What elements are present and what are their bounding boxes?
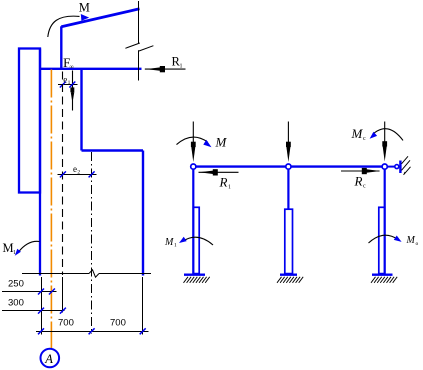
column step vertical bbox=[80, 69, 82, 151]
right support hatching bbox=[371, 277, 397, 283]
dim e1 line bbox=[58, 84, 78, 86]
svg-text:2: 2 bbox=[77, 169, 80, 175]
svg-text:e: e bbox=[73, 164, 77, 174]
left column line bbox=[192, 167, 194, 274]
middle column widened part bbox=[285, 209, 293, 273]
svg-text:∞: ∞ bbox=[70, 65, 74, 71]
beam axis dashed line bbox=[62, 72, 64, 276]
roof beam sloped top chord bbox=[61, 9, 139, 27]
svg-text:M: M bbox=[215, 135, 228, 150]
svg-text:M: M bbox=[351, 126, 364, 141]
extension line left bbox=[41, 277, 43, 335]
R arrow left bbox=[199, 171, 239, 173]
dim e2 ticks bbox=[60, 171, 66, 177]
section break line (vertical) bbox=[125, 1, 153, 81]
beam soffit line bbox=[39, 68, 142, 70]
R arrow right bbox=[341, 170, 380, 172]
force arrow node 2 bbox=[287, 122, 289, 149]
left support hatching bbox=[184, 277, 210, 283]
R1 arrow bbox=[145, 68, 186, 70]
column moment arc left bbox=[183, 237, 214, 245]
svg-text:700: 700 bbox=[110, 318, 126, 329]
svg-text:R: R bbox=[219, 175, 228, 190]
wall support hatching bbox=[402, 156, 411, 175]
column left edge bbox=[39, 49, 41, 276]
left support bar bbox=[184, 274, 205, 276]
svg-text:1: 1 bbox=[68, 80, 71, 86]
moment M arrowhead bbox=[81, 14, 89, 21]
wall support link bbox=[388, 166, 396, 168]
extension line dashed-axis bbox=[62, 277, 64, 313]
base line break squiggle bbox=[89, 270, 99, 277]
svg-text:1: 1 bbox=[228, 185, 231, 191]
moment arc node 3 bbox=[373, 129, 403, 141]
wall support pin circle bbox=[395, 165, 399, 169]
dim e1 ticks bbox=[60, 82, 66, 88]
svg-text:R: R bbox=[354, 174, 363, 189]
roof beam end face bbox=[60, 26, 62, 69]
dim 700 700 bbox=[36, 331, 149, 333]
svg-text:250: 250 bbox=[8, 278, 24, 289]
moment M arc (top) bbox=[48, 16, 80, 37]
middle support bar bbox=[280, 274, 297, 276]
dim 300 bbox=[2, 310, 65, 312]
svg-text:A: A bbox=[44, 352, 53, 366]
svg-text:700: 700 bbox=[58, 318, 74, 329]
svg-text:c: c bbox=[363, 136, 366, 142]
svg-text:M: M bbox=[164, 237, 174, 248]
right support bar bbox=[372, 274, 393, 276]
node 3 circle bbox=[382, 164, 387, 169]
svg-text:1: 1 bbox=[174, 243, 177, 249]
moment arc node 1 bbox=[177, 137, 208, 145]
dim 250 bbox=[2, 291, 57, 293]
svg-text:1: 1 bbox=[180, 64, 183, 70]
svg-text:c: c bbox=[363, 184, 366, 190]
right column line bbox=[384, 167, 386, 274]
middle support hatching bbox=[277, 277, 303, 283]
beam line bbox=[193, 165, 384, 167]
extension line right bbox=[142, 277, 144, 335]
wall support plate bbox=[399, 161, 401, 174]
base line bbox=[22, 273, 89, 275]
column right edge bbox=[142, 151, 144, 276]
dim e2 line bbox=[58, 174, 97, 176]
centerline (orange) bbox=[50, 70, 52, 349]
moment M1 arc bbox=[19, 241, 40, 252]
svg-text:e: e bbox=[63, 75, 67, 85]
force arrow node 1 bbox=[192, 122, 194, 149]
svg-text:M: M bbox=[406, 235, 416, 246]
left column widened part bbox=[193, 207, 199, 273]
middle column line bbox=[287, 167, 289, 210]
force arrow node 3 bbox=[384, 122, 386, 148]
lower column axis dash-dot bbox=[91, 152, 93, 334]
right column widened part bbox=[379, 207, 385, 273]
moment M1 arrowhead bbox=[15, 249, 21, 256]
wall panel rectangle bbox=[19, 49, 40, 193]
svg-text:300: 300 bbox=[8, 297, 24, 308]
node 1 circle bbox=[191, 164, 196, 169]
column moment arc right bbox=[369, 235, 399, 243]
svg-text:M: M bbox=[3, 241, 14, 255]
column step horizontal bbox=[82, 149, 144, 151]
axis A circle bbox=[41, 349, 60, 368]
svg-text:o: o bbox=[416, 241, 419, 247]
node 2 circle bbox=[286, 164, 291, 169]
force F arrow (down) bbox=[72, 71, 74, 111]
svg-text:M: M bbox=[79, 1, 90, 15]
